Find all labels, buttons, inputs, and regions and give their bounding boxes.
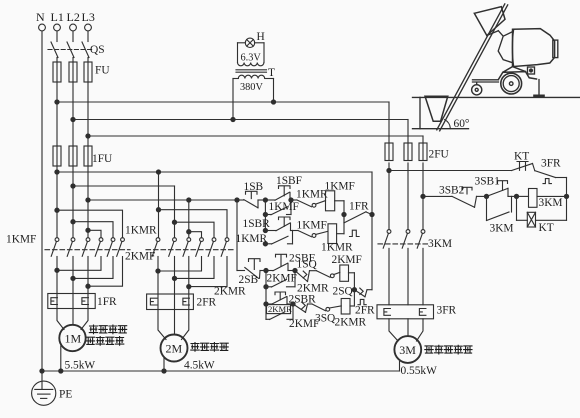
contact 1KMR aux (seal-in) — [236, 231, 293, 246]
coil 3KM — [517, 189, 567, 210]
motor 3M — [394, 336, 421, 363]
svg-text:N: N — [36, 10, 45, 24]
wire L2 down to 1FU — [72, 82, 74, 146]
svg-text:2KMR: 2KMR — [268, 304, 292, 314]
switch QS — [48, 42, 105, 58]
motor 1M — [59, 325, 85, 351]
contact 2KMF aux (seal-in) — [264, 271, 297, 289]
wire 1M pole4 fold to L1 — [55, 257, 101, 273]
wire L3 stub — [87, 31, 89, 42]
svg-text:1KMF: 1KMF — [297, 220, 327, 232]
rail pump control mid — [423, 195, 452, 197]
wheel jockey — [472, 85, 482, 95]
svg-text:2KMR: 2KMR — [214, 286, 246, 298]
contact 1FR (thermal NC) — [344, 201, 372, 237]
svg-text:3SB1: 3SB1 — [475, 175, 501, 187]
svg-text:1SB: 1SB — [244, 181, 264, 193]
svg-text:1SBR: 1SBR — [243, 218, 271, 230]
svg-text:QS: QS — [90, 44, 105, 56]
motor 3M leads — [389, 319, 423, 371]
coil 2KMR — [335, 290, 367, 329]
wire node A vertical — [264, 200, 266, 231]
svg-text:T: T — [268, 67, 275, 79]
contact 1KMF aux (seal-in) — [263, 198, 299, 217]
svg-text:1FU: 1FU — [92, 153, 112, 165]
svg-text:2FR: 2FR — [197, 297, 217, 309]
rail C (L3 control/2M feed) — [86, 198, 239, 202]
node G — [264, 302, 268, 306]
svg-text:2FR: 2FR — [355, 305, 375, 317]
rail pump control top — [389, 170, 512, 172]
wire 2M feed pole2 — [172, 186, 214, 238]
wire 1M pole outputs L2 column — [72, 257, 74, 309]
svg-text:3FR: 3FR — [541, 158, 561, 170]
ground upper — [413, 96, 580, 98]
transformer T secondary 6.3V — [238, 43, 265, 66]
chassis — [498, 67, 536, 80]
ground PE — [32, 381, 73, 405]
rail B (L2 2M feed) — [71, 184, 175, 188]
svg-text:1KMR: 1KMR — [236, 233, 268, 245]
svg-text:FU: FU — [95, 65, 110, 77]
wire 1M pole6 fold to L3 — [86, 257, 123, 289]
svg-text:3KM: 3KM — [490, 223, 514, 235]
svg-text:5.5kW: 5.5kW — [65, 360, 96, 372]
button 1SB (stop, NC) — [237, 181, 265, 208]
thermal relay 3FR — [377, 305, 457, 319]
button 2SBF (hoist up, NO) — [266, 253, 315, 271]
contactor 2KMF main contacts (poles 1-3) — [125, 238, 191, 263]
svg-text:KT: KT — [514, 151, 529, 163]
hopper lower (pit hopper) — [425, 96, 448, 121]
svg-text:L3: L3 — [82, 10, 95, 24]
svg-text:2KMF: 2KMF — [267, 272, 297, 284]
svg-text:3KM: 3KM — [539, 197, 563, 209]
limit switch 1SQ — [295, 259, 318, 282]
svg-text:1SBF: 1SBF — [276, 175, 302, 187]
svg-text:L2: L2 — [67, 10, 80, 24]
wire 1M pole outputs L3 column — [87, 257, 89, 309]
node A — [263, 198, 267, 202]
wire L1 down to 1FU — [56, 82, 58, 146]
contact 2KMR aux (seal-in, boxed label) — [266, 304, 293, 320]
terminal L1 — [51, 10, 64, 31]
node right rail 1 — [370, 212, 374, 216]
wire L2 stub — [72, 31, 74, 42]
contactor 1KMF main contacts (poles 1-3) — [6, 234, 90, 257]
lamp H — [245, 31, 264, 48]
svg-text:1SQ: 1SQ — [297, 259, 318, 271]
bus line 1 (L1 phase to 2FU) — [55, 100, 389, 143]
tow bar — [473, 80, 499, 85]
wire node E vertical — [265, 271, 267, 305]
node H — [291, 302, 295, 306]
svg-text:3SB2: 3SB2 — [439, 184, 465, 196]
svg-text:1KMR: 1KMR — [125, 225, 157, 237]
contact 2KMR interlock (NC) — [297, 271, 340, 295]
angle arc 60 deg — [445, 120, 451, 129]
svg-text:2FU: 2FU — [429, 149, 449, 161]
contact 3KM aux (seal-in) — [487, 196, 514, 234]
wire 1M pole5 fold to L2 — [71, 257, 113, 281]
node rail right — [564, 194, 568, 198]
fuse 2FU (3 poles) — [385, 143, 449, 161]
motor 2M leads — [158, 310, 189, 372]
bus line 3 (L3 phase to 2FU) — [86, 134, 423, 143]
wire 3KM outputs — [389, 248, 423, 304]
contact 1KMR interlock (NC) — [291, 189, 328, 208]
mixer drum — [513, 29, 555, 67]
svg-text:PE: PE — [59, 389, 72, 401]
svg-text:1KMR: 1KMR — [321, 242, 353, 254]
svg-text:3KM: 3KM — [428, 238, 452, 250]
drum mouth — [498, 31, 512, 63]
svg-text:1FR: 1FR — [97, 296, 117, 308]
bus line 2 (L2 phase to 2FU) — [71, 117, 408, 143]
svg-text:1KMF: 1KMF — [6, 234, 36, 246]
contact 2KMF interlock (NC) — [289, 304, 341, 330]
motor 2M — [161, 335, 188, 362]
linkage dashed 2KMF/2KMR — [146, 249, 234, 251]
svg-text:1KMF: 1KMF — [325, 181, 355, 193]
hopper upper (skip) — [474, 7, 505, 36]
svg-text:KT: KT — [539, 222, 554, 234]
wire 2M pole5 fold — [172, 257, 214, 281]
node 2SQ — [352, 288, 356, 292]
svg-text:3M: 3M — [399, 343, 416, 357]
coil 1KMF — [325, 181, 355, 215]
terminal N — [36, 10, 45, 31]
svg-text:6.3V: 6.3V — [241, 53, 262, 64]
terminal L3 — [82, 10, 95, 31]
svg-text:2KMF: 2KMF — [289, 318, 319, 330]
button 3SB2 (stop, NC) — [439, 184, 487, 207]
svg-text:2KMF: 2KMF — [125, 251, 155, 263]
control left rail — [236, 200, 238, 271]
button 1SBF (start fwd, NO) — [265, 175, 302, 200]
svg-text:2M: 2M — [166, 341, 183, 355]
wire 2M pole4 fold — [156, 257, 202, 274]
svg-text:380V: 380V — [240, 82, 263, 93]
support leg — [538, 80, 540, 95]
button 2SBR (hoist down, NO) — [266, 292, 316, 306]
contactor 1KMR main contacts (poles 4-6) — [95, 225, 157, 257]
wire 2M feed pole1 — [156, 172, 227, 238]
svg-text:1KMF: 1KMF — [269, 201, 299, 213]
svg-text:0.55kW: 0.55kW — [401, 365, 438, 377]
wire 1M phase-swap L1 to pole6 — [55, 208, 123, 238]
wire L1 below 1FU to 1KMF contact — [56, 166, 58, 238]
linkage dashed 1KMF/1KMR — [45, 249, 130, 251]
contactor 3KM main contacts — [378, 163, 452, 250]
time contact KT (delayed NO) — [512, 151, 533, 171]
fuse 1FU (3 poles) — [53, 146, 112, 166]
rail A (L1 control/2M feed) — [55, 170, 372, 290]
limit switch 3SQ — [293, 302, 336, 324]
wire N vertical — [41, 31, 43, 389]
wire 2M pole outputs col2 — [174, 257, 176, 310]
node 2FU rail 2 — [421, 194, 425, 198]
motor 1M leads — [57, 309, 88, 372]
ground lower (pit) — [413, 128, 469, 130]
svg-text:H: H — [257, 31, 265, 43]
button 3SB1 (start, NO) — [475, 175, 517, 196]
coil KT (time relay) — [517, 196, 567, 234]
wire 1M phase-swap L2 to pole5 — [71, 220, 113, 238]
svg-text:2KMF: 2KMF — [332, 254, 362, 266]
label 1M function (CJK) — [86, 325, 127, 345]
wire 2M pole outputs col1 — [157, 257, 159, 310]
wire L3 below 1FU — [87, 166, 89, 238]
terminal L2 — [67, 10, 80, 31]
svg-text:2SQ: 2SQ — [333, 286, 354, 298]
right rail pump — [566, 178, 568, 221]
coil 2KMF — [332, 254, 362, 290]
pit depth line — [419, 97, 421, 128]
svg-text:2SB: 2SB — [239, 274, 259, 286]
node E — [264, 268, 268, 272]
node B2 — [514, 194, 518, 198]
thermal relay 2FR — [147, 294, 217, 310]
button 1SBR (start rev, NO) — [243, 217, 293, 233]
contact 1KMF interlock (NC) — [293, 220, 328, 238]
contact 3FR (thermal NC) — [533, 158, 567, 184]
svg-text:1KMR: 1KMR — [296, 189, 328, 201]
hoist rail — [437, 4, 505, 130]
wire 1M pole outputs L1 column — [56, 257, 58, 309]
mixer illustration — [413, 4, 580, 131]
node 1FR in — [342, 212, 346, 216]
label 3M function (CJK) — [425, 345, 472, 354]
svg-text:L1: L1 — [51, 10, 64, 24]
svg-text:3FR: 3FR — [437, 305, 457, 317]
coil 1KMR — [321, 215, 353, 254]
label 2M function (CJK) — [191, 343, 228, 352]
node 2FU rail 1 — [387, 168, 391, 172]
fuse FU (3 poles) — [53, 58, 110, 83]
svg-text:60°: 60° — [454, 118, 470, 130]
wire 2M pole6 fold — [187, 257, 227, 289]
node A2 — [484, 194, 488, 198]
wire 2M pole outputs col3 — [188, 257, 190, 310]
wheel main — [501, 73, 522, 94]
svg-text:2KMR: 2KMR — [335, 317, 367, 329]
bottom PE bus — [40, 369, 400, 373]
wire L1 stub — [56, 31, 58, 42]
transformer T core — [236, 67, 275, 79]
transformer T primary 380V — [231, 75, 276, 121]
thermal relay 1FR — [48, 294, 117, 309]
wire 1M phase-swap L3 to pole4 — [86, 228, 101, 238]
wire L3 down to 1FU — [87, 82, 89, 146]
contact 2FR (thermal NC) — [355, 290, 375, 317]
svg-text:1FR: 1FR — [349, 201, 369, 213]
limit switch 2SQ — [333, 286, 366, 298]
wire 2M feed pole3 — [187, 200, 202, 238]
contactor 2KMR main contacts (poles 4-6) — [196, 238, 246, 298]
wire L2 below 1FU — [72, 166, 74, 238]
button 2SB (stop, NC) — [237, 259, 266, 286]
svg-text:4.5kW: 4.5kW — [184, 359, 215, 371]
svg-text:1M: 1M — [65, 331, 82, 345]
node F — [293, 268, 297, 272]
